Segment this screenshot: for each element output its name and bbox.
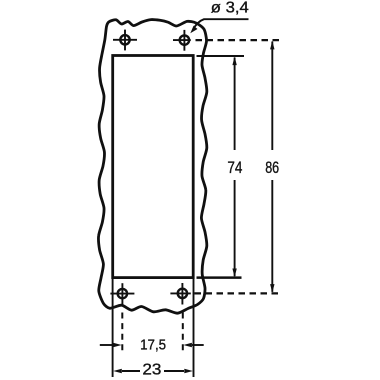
centerline dashed below hole bottom-left xyxy=(121,313,123,351)
hole bottom-right xyxy=(170,283,190,305)
dimension line 17,5 xyxy=(100,343,204,347)
svg-text:ø 3,4: ø 3,4 xyxy=(211,0,249,17)
hole top-left xyxy=(113,30,137,51)
cutout rectangle xyxy=(113,56,194,278)
extension line top (from cutout top edge) xyxy=(197,55,245,57)
svg-text:74: 74 xyxy=(227,159,242,177)
dimension line 74 xyxy=(232,57,236,278)
extension line bottom (from cutout bottom edge) xyxy=(197,276,242,279)
hole bottom-left xyxy=(110,283,134,304)
svg-text:86: 86 xyxy=(265,159,279,177)
svg-text:23: 23 xyxy=(142,362,161,379)
extension line right for 23 xyxy=(193,279,195,377)
svg-text:17,5: 17,5 xyxy=(140,336,166,353)
dimension line 23 xyxy=(113,369,193,373)
extension line left for 23 xyxy=(112,279,114,377)
centerline dashed below hole bottom-right xyxy=(182,313,184,351)
centerline dashed top xyxy=(196,39,280,41)
hole top-right xyxy=(173,30,191,51)
leader line for hole diameter xyxy=(190,19,248,33)
panel sheet torn outline xyxy=(98,20,206,314)
centerline dashed bottom xyxy=(195,292,279,294)
dimension line 86 xyxy=(270,41,274,293)
